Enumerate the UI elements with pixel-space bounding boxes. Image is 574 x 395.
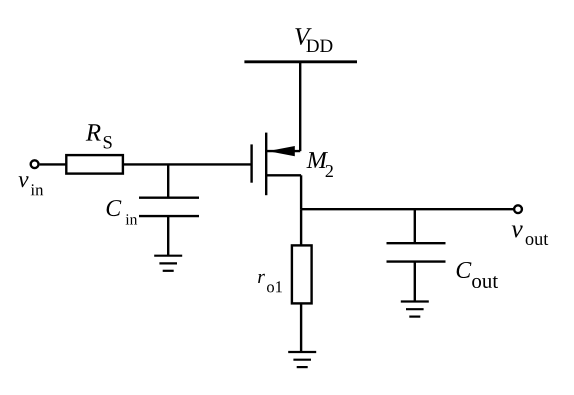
resistor ro1 bbox=[292, 245, 312, 303]
ground (below Cout) bbox=[401, 302, 429, 317]
terminal vout bbox=[514, 205, 522, 213]
supply rail VDD bbox=[244, 60, 357, 63]
ground (below Cin) bbox=[154, 256, 182, 271]
label RS bbox=[86, 124, 112, 148]
wire vin to RS bbox=[40, 163, 67, 165]
label vin bbox=[19, 176, 44, 195]
label vout bbox=[512, 226, 549, 246]
wire RS to gate of M2 bbox=[123, 163, 252, 165]
wire Cout to ground bbox=[414, 262, 416, 302]
wire M2 drain to output node bbox=[300, 175, 302, 209]
terminal vin bbox=[31, 160, 39, 168]
wire VDD rail to M2 source bbox=[299, 62, 301, 151]
wire output node to ro1 bbox=[300, 209, 302, 245]
transistor M2 bbox=[252, 133, 302, 196]
wire ro1 to ground bbox=[300, 303, 302, 352]
label ro1 bbox=[258, 274, 282, 293]
label M2 bbox=[306, 152, 332, 177]
wire output node to Cout bbox=[414, 209, 416, 243]
ground (below ro1) bbox=[288, 352, 316, 367]
label Cin bbox=[107, 200, 138, 224]
wire gate node to Cin bbox=[167, 164, 169, 197]
wire Cin to ground bbox=[167, 216, 169, 256]
label Cout bbox=[457, 262, 498, 288]
capacitor Cin bbox=[139, 198, 199, 216]
resistor RS bbox=[66, 155, 123, 174]
wire output node to vout terminal bbox=[301, 208, 513, 210]
label VDD bbox=[295, 28, 332, 52]
capacitor Cout bbox=[387, 243, 446, 261]
